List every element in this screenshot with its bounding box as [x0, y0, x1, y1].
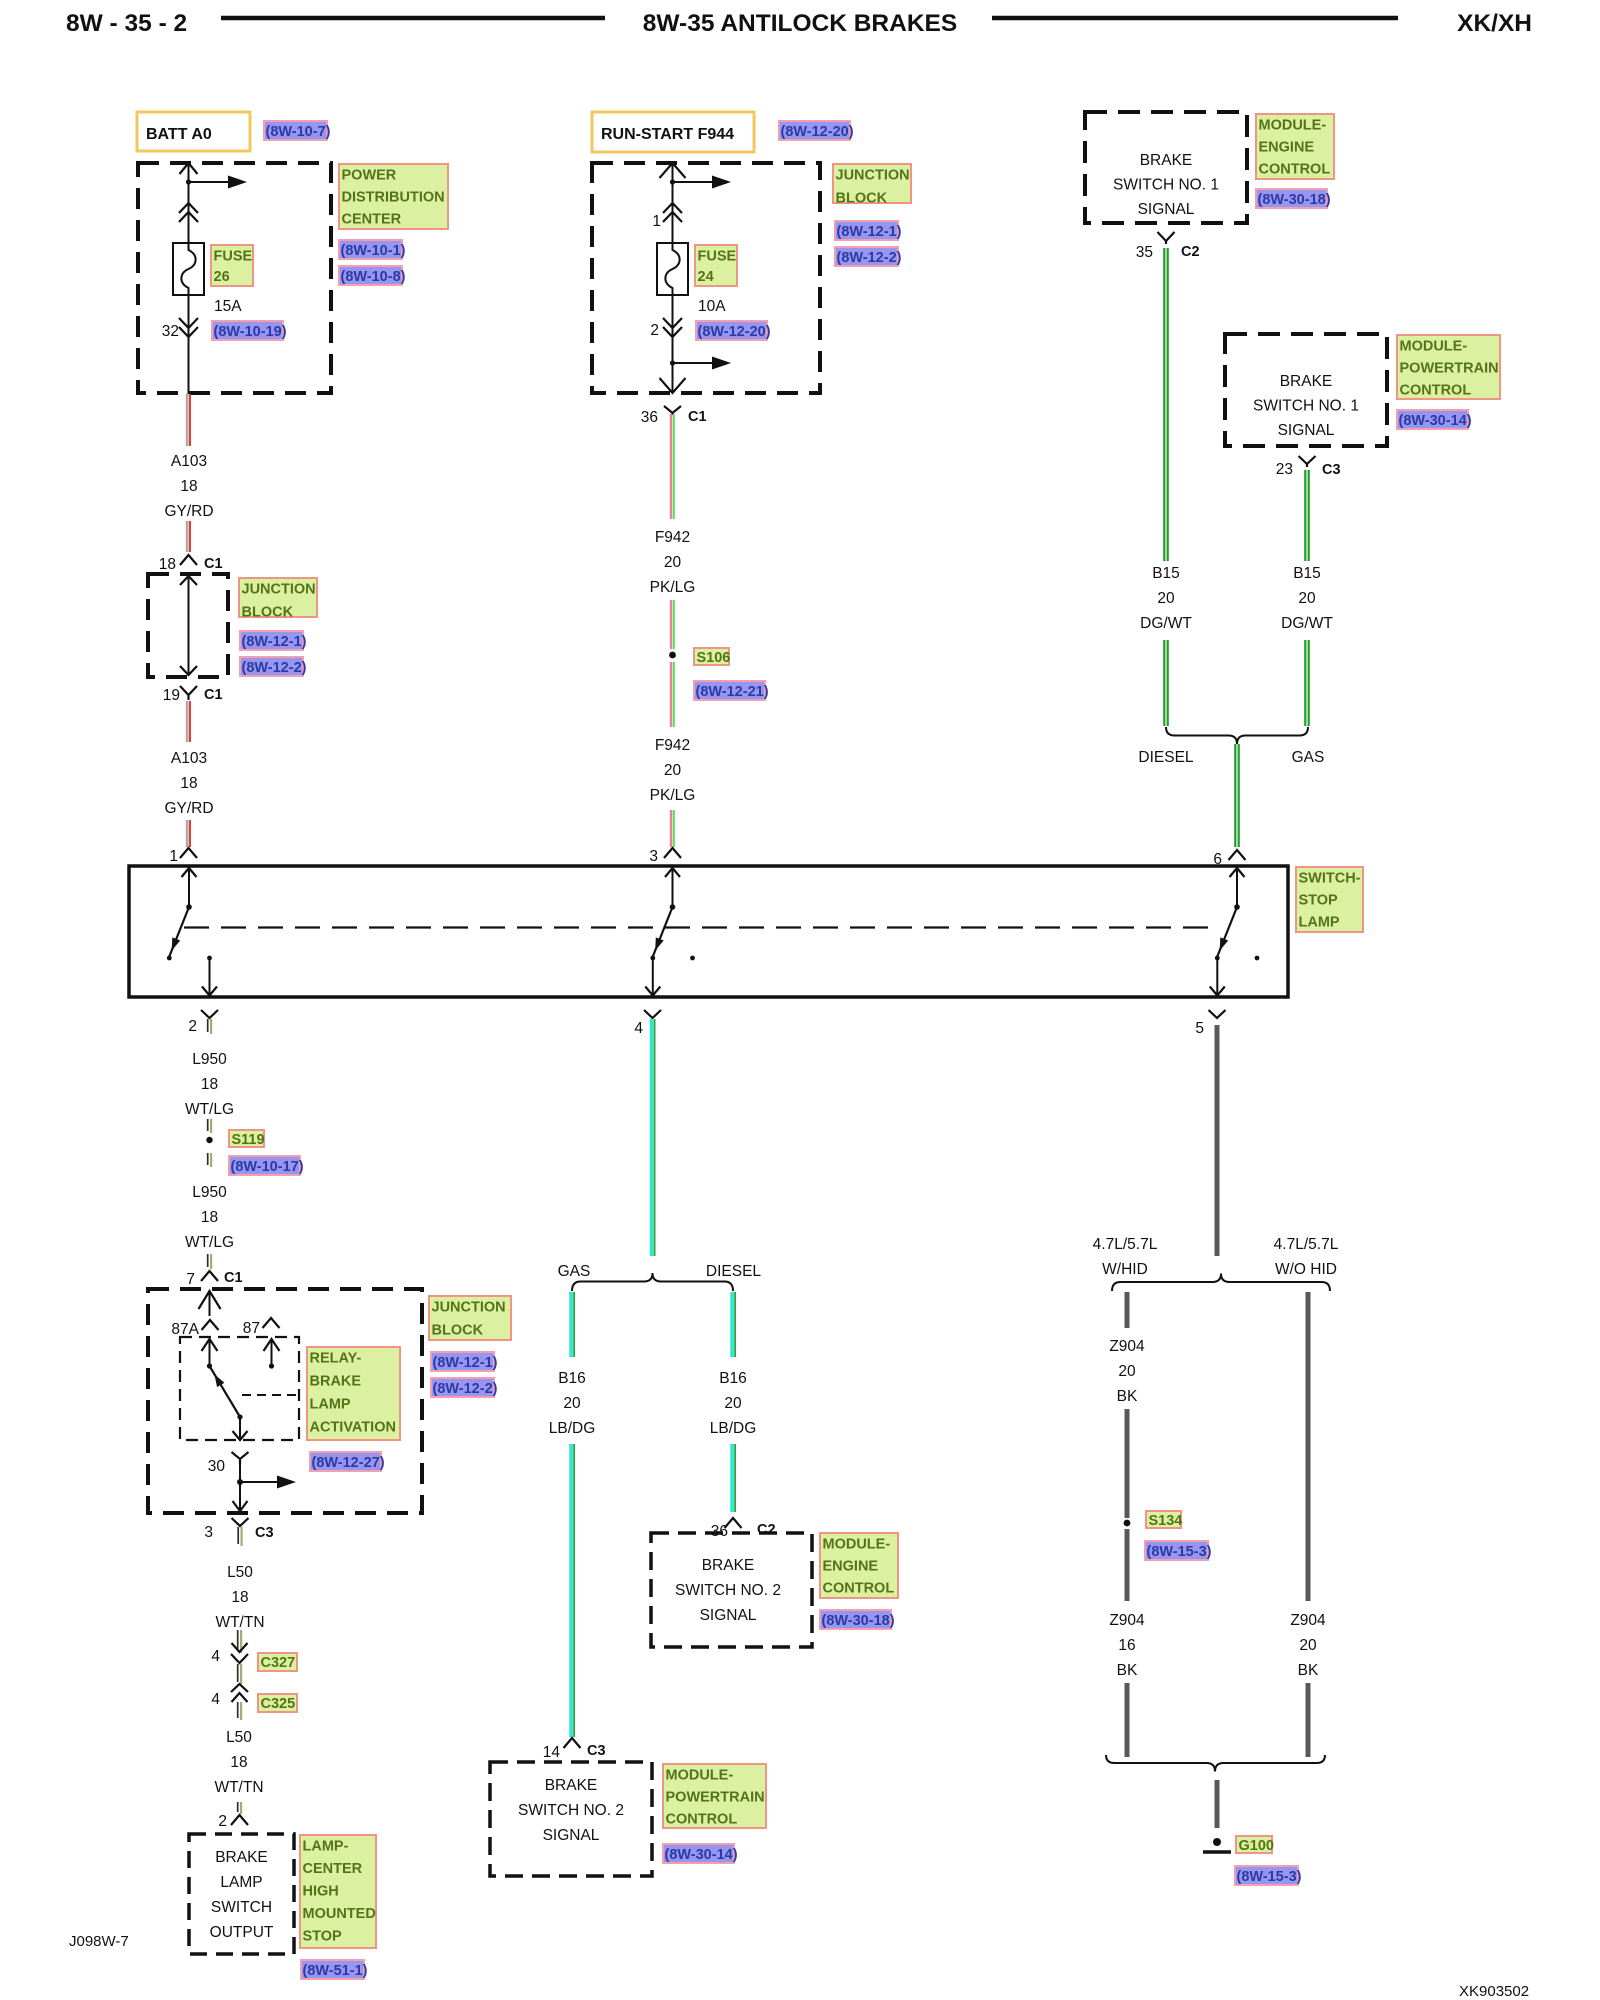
- svg-text:(8W-15-3): (8W-15-3): [1147, 1544, 1212, 1560]
- svg-text:SWITCH NO. 1: SWITCH NO. 1: [1253, 398, 1359, 415]
- svg-text:2: 2: [218, 1813, 227, 1830]
- svg-text:30: 30: [208, 1458, 226, 1475]
- svg-text:ENGINE: ENGINE: [1259, 140, 1315, 156]
- svg-text:Z904: Z904: [1109, 1612, 1145, 1629]
- svg-text:18: 18: [159, 556, 176, 573]
- svg-text:15A: 15A: [214, 298, 242, 315]
- svg-text:ACTIVATION: ACTIVATION: [310, 1420, 396, 1436]
- svg-text:LB/DG: LB/DG: [710, 1420, 757, 1437]
- svg-text:BK: BK: [1298, 1662, 1319, 1679]
- svg-text:ENGINE: ENGINE: [823, 1559, 879, 1575]
- svg-text:C1: C1: [688, 409, 707, 425]
- svg-text:BK: BK: [1117, 1662, 1138, 1679]
- svg-text:4: 4: [211, 1691, 220, 1708]
- svg-text:BRAKE: BRAKE: [310, 1374, 362, 1390]
- svg-text:JUNCTION: JUNCTION: [242, 582, 316, 598]
- svg-text:S106: S106: [697, 650, 731, 666]
- svg-text:3: 3: [649, 848, 658, 865]
- svg-text:FUSE: FUSE: [698, 249, 737, 265]
- svg-text:OUTPUT: OUTPUT: [210, 1924, 274, 1941]
- svg-text:MODULE-: MODULE-: [1400, 339, 1468, 355]
- svg-text:(8W-10-19): (8W-10-19): [214, 324, 287, 340]
- svg-text:7: 7: [186, 1271, 195, 1288]
- svg-text:(8W-12-27): (8W-12-27): [312, 1455, 385, 1471]
- svg-text:18: 18: [230, 1754, 247, 1771]
- svg-text:C327: C327: [261, 1655, 296, 1671]
- svg-text:BK: BK: [1117, 1388, 1138, 1405]
- svg-text:4.7L/5.7L: 4.7L/5.7L: [1093, 1236, 1158, 1253]
- svg-text:WT/TN: WT/TN: [215, 1614, 264, 1631]
- svg-text:FUSE: FUSE: [214, 249, 253, 265]
- svg-text:B15: B15: [1293, 565, 1321, 582]
- svg-text:CONTROL: CONTROL: [666, 1812, 738, 1828]
- svg-text:SIGNAL: SIGNAL: [700, 1607, 757, 1624]
- svg-text:19: 19: [163, 687, 180, 704]
- svg-text:PK/LG: PK/LG: [650, 787, 696, 804]
- svg-text:(8W-10-17): (8W-10-17): [231, 1159, 304, 1175]
- svg-text:J098W-7: J098W-7: [69, 1933, 129, 1950]
- svg-text:C1: C1: [224, 1270, 243, 1286]
- svg-text:5: 5: [1195, 1020, 1204, 1037]
- svg-text:DIESEL: DIESEL: [706, 1263, 762, 1280]
- svg-text:(8W-12-2): (8W-12-2): [242, 660, 307, 676]
- svg-text:CENTER: CENTER: [303, 1861, 363, 1877]
- svg-text:BLOCK: BLOCK: [242, 605, 294, 621]
- svg-text:RUN-START F944: RUN-START F944: [601, 126, 734, 143]
- svg-text:1: 1: [169, 848, 178, 865]
- svg-text:(8W-12-2): (8W-12-2): [837, 250, 902, 266]
- svg-text:(8W-12-21): (8W-12-21): [696, 684, 769, 700]
- svg-text:JUNCTION: JUNCTION: [836, 168, 910, 184]
- svg-text:SIGNAL: SIGNAL: [1278, 422, 1335, 439]
- svg-text:C1: C1: [204, 687, 223, 703]
- svg-text:DG/WT: DG/WT: [1281, 615, 1333, 632]
- svg-text:20: 20: [1157, 590, 1175, 607]
- svg-text:4.7L/5.7L: 4.7L/5.7L: [1274, 1236, 1339, 1253]
- svg-text:2: 2: [188, 1018, 197, 1035]
- svg-text:8W-35 ANTILOCK BRAKES: 8W-35 ANTILOCK BRAKES: [643, 10, 957, 37]
- svg-text:20: 20: [724, 1395, 742, 1412]
- svg-text:SIGNAL: SIGNAL: [543, 1827, 600, 1844]
- svg-text:CONTROL: CONTROL: [823, 1581, 895, 1597]
- svg-text:(8W-12-1): (8W-12-1): [837, 224, 902, 240]
- svg-text:GY/RD: GY/RD: [164, 800, 213, 817]
- svg-text:20: 20: [664, 762, 682, 779]
- svg-text:MOUNTED: MOUNTED: [303, 1906, 376, 1922]
- svg-text:6: 6: [1213, 851, 1222, 868]
- svg-text:GAS: GAS: [1292, 749, 1325, 766]
- svg-text:RELAY-: RELAY-: [310, 1351, 362, 1367]
- svg-text:DIESEL: DIESEL: [1138, 749, 1194, 766]
- svg-text:14: 14: [543, 1744, 561, 1761]
- svg-text:STOP: STOP: [303, 1929, 343, 1945]
- svg-text:24: 24: [698, 269, 714, 285]
- svg-text:36: 36: [641, 409, 658, 426]
- svg-text:LB/DG: LB/DG: [549, 1420, 596, 1437]
- svg-text:HIGH: HIGH: [303, 1884, 339, 1900]
- svg-text:LAMP: LAMP: [310, 1397, 351, 1413]
- svg-text:LAMP: LAMP: [220, 1874, 262, 1891]
- svg-text:(8W-10-7): (8W-10-7): [266, 124, 331, 140]
- svg-text:20: 20: [1298, 590, 1316, 607]
- svg-text:B15: B15: [1152, 565, 1180, 582]
- svg-text:23: 23: [1276, 461, 1293, 478]
- svg-text:C3: C3: [255, 1525, 274, 1541]
- svg-text:L950: L950: [192, 1184, 227, 1201]
- svg-text:BLOCK: BLOCK: [836, 191, 888, 207]
- svg-text:87: 87: [243, 1320, 260, 1337]
- svg-text:BRAKE: BRAKE: [702, 1557, 755, 1574]
- svg-text:WT/LG: WT/LG: [185, 1234, 234, 1251]
- svg-text:(8W-10-8): (8W-10-8): [341, 269, 406, 285]
- svg-text:A103: A103: [171, 750, 207, 767]
- svg-text:26: 26: [214, 269, 230, 285]
- svg-text:18: 18: [231, 1589, 248, 1606]
- svg-text:87A: 87A: [171, 1321, 199, 1338]
- svg-text:SWITCH NO. 2: SWITCH NO. 2: [675, 1582, 781, 1599]
- svg-text:BATT A0: BATT A0: [146, 126, 212, 143]
- svg-text:2: 2: [650, 322, 659, 339]
- svg-text:C3: C3: [1322, 462, 1341, 478]
- svg-text:20: 20: [1299, 1637, 1317, 1654]
- svg-text:20: 20: [664, 554, 682, 571]
- svg-text:DISTRIBUTION: DISTRIBUTION: [342, 190, 445, 206]
- svg-text:POWER: POWER: [342, 168, 397, 184]
- svg-text:L950: L950: [192, 1051, 227, 1068]
- svg-text:(8W-30-18): (8W-30-18): [1258, 192, 1331, 208]
- svg-text:(8W-12-2): (8W-12-2): [433, 1381, 498, 1397]
- svg-text:(8W-30-14): (8W-30-14): [665, 1847, 738, 1863]
- svg-text:1: 1: [652, 213, 661, 230]
- svg-text:STOP: STOP: [1299, 893, 1339, 909]
- svg-text:(8W-12-20): (8W-12-20): [781, 124, 854, 140]
- svg-text:F942: F942: [655, 737, 690, 754]
- svg-text:C1: C1: [204, 556, 223, 572]
- svg-text:MODULE-: MODULE-: [666, 1768, 734, 1784]
- svg-text:B16: B16: [719, 1370, 747, 1387]
- svg-text:S134: S134: [1149, 1513, 1183, 1529]
- svg-text:BRAKE: BRAKE: [545, 1777, 598, 1794]
- svg-text:L50: L50: [226, 1729, 252, 1746]
- svg-text:C2: C2: [1181, 244, 1200, 260]
- svg-text:POWERTRAIN: POWERTRAIN: [1400, 361, 1499, 377]
- svg-text:MODULE-: MODULE-: [823, 1537, 891, 1553]
- svg-text:G100: G100: [1239, 1838, 1274, 1854]
- svg-text:20: 20: [1118, 1363, 1136, 1380]
- svg-text:POWERTRAIN: POWERTRAIN: [666, 1790, 765, 1806]
- svg-text:PK/LG: PK/LG: [650, 579, 696, 596]
- svg-text:JUNCTION: JUNCTION: [432, 1300, 506, 1316]
- svg-text:MODULE-: MODULE-: [1259, 118, 1327, 134]
- svg-text:32: 32: [162, 323, 179, 340]
- svg-text:SWITCH NO. 1: SWITCH NO. 1: [1113, 177, 1219, 194]
- svg-text:18: 18: [180, 775, 197, 792]
- svg-text:18: 18: [201, 1209, 218, 1226]
- svg-text:8W - 35 - 2: 8W - 35 - 2: [66, 10, 187, 37]
- svg-text:(8W-51-1): (8W-51-1): [303, 1963, 368, 1979]
- svg-text:(8W-12-1): (8W-12-1): [242, 634, 307, 650]
- svg-text:35: 35: [1136, 244, 1153, 261]
- svg-text:WT/LG: WT/LG: [185, 1101, 234, 1118]
- svg-text:GY/RD: GY/RD: [164, 503, 213, 520]
- svg-text:BRAKE: BRAKE: [1140, 152, 1193, 169]
- svg-text:(8W-30-18): (8W-30-18): [822, 1613, 895, 1629]
- svg-text:BRAKE: BRAKE: [1280, 373, 1333, 390]
- svg-text:4: 4: [634, 1020, 643, 1037]
- svg-text:C2: C2: [757, 1522, 776, 1538]
- svg-text:3: 3: [204, 1524, 213, 1541]
- svg-text:W/HID: W/HID: [1102, 1261, 1148, 1278]
- svg-text:16: 16: [1118, 1637, 1135, 1654]
- svg-text:BLOCK: BLOCK: [432, 1323, 484, 1339]
- svg-text:XK903502: XK903502: [1459, 1983, 1529, 2000]
- svg-text:F942: F942: [655, 529, 690, 546]
- svg-text:S119: S119: [232, 1132, 265, 1148]
- svg-text:CONTROL: CONTROL: [1259, 162, 1331, 178]
- svg-text:C325: C325: [261, 1696, 296, 1712]
- svg-text:SWITCH-: SWITCH-: [1299, 871, 1361, 887]
- svg-text:(8W-10-1): (8W-10-1): [341, 243, 406, 259]
- svg-text:CONTROL: CONTROL: [1400, 383, 1472, 399]
- svg-text:SWITCH NO. 2: SWITCH NO. 2: [518, 1802, 624, 1819]
- svg-text:L50: L50: [227, 1564, 253, 1581]
- svg-text:DG/WT: DG/WT: [1140, 615, 1192, 632]
- svg-text:(8W-12-1): (8W-12-1): [433, 1355, 498, 1371]
- svg-text:(8W-15-3): (8W-15-3): [1237, 1869, 1302, 1885]
- svg-text:20: 20: [563, 1395, 581, 1412]
- svg-text:(8W-12-20): (8W-12-20): [698, 324, 771, 340]
- svg-text:B16: B16: [558, 1370, 586, 1387]
- svg-text:18: 18: [180, 478, 197, 495]
- svg-text:LAMP-: LAMP-: [303, 1839, 349, 1855]
- svg-text:GAS: GAS: [558, 1263, 591, 1280]
- svg-text:4: 4: [211, 1648, 220, 1665]
- svg-text:18: 18: [201, 1076, 218, 1093]
- svg-text:10A: 10A: [698, 298, 726, 315]
- svg-text:SWITCH: SWITCH: [211, 1899, 272, 1916]
- svg-text:XK/XH: XK/XH: [1457, 10, 1532, 37]
- svg-text:SIGNAL: SIGNAL: [1138, 201, 1195, 218]
- svg-text:CENTER: CENTER: [342, 212, 402, 228]
- svg-text:A103: A103: [171, 453, 207, 470]
- svg-text:Z904: Z904: [1290, 1612, 1326, 1629]
- svg-text:C3: C3: [587, 1743, 606, 1759]
- svg-text:LAMP: LAMP: [1299, 915, 1340, 931]
- svg-text:Z904: Z904: [1109, 1338, 1145, 1355]
- svg-text:WT/TN: WT/TN: [214, 1779, 263, 1796]
- svg-text:W/O HID: W/O HID: [1275, 1261, 1337, 1278]
- svg-text:BRAKE: BRAKE: [215, 1849, 268, 1866]
- svg-text:(8W-30-14): (8W-30-14): [1399, 413, 1472, 429]
